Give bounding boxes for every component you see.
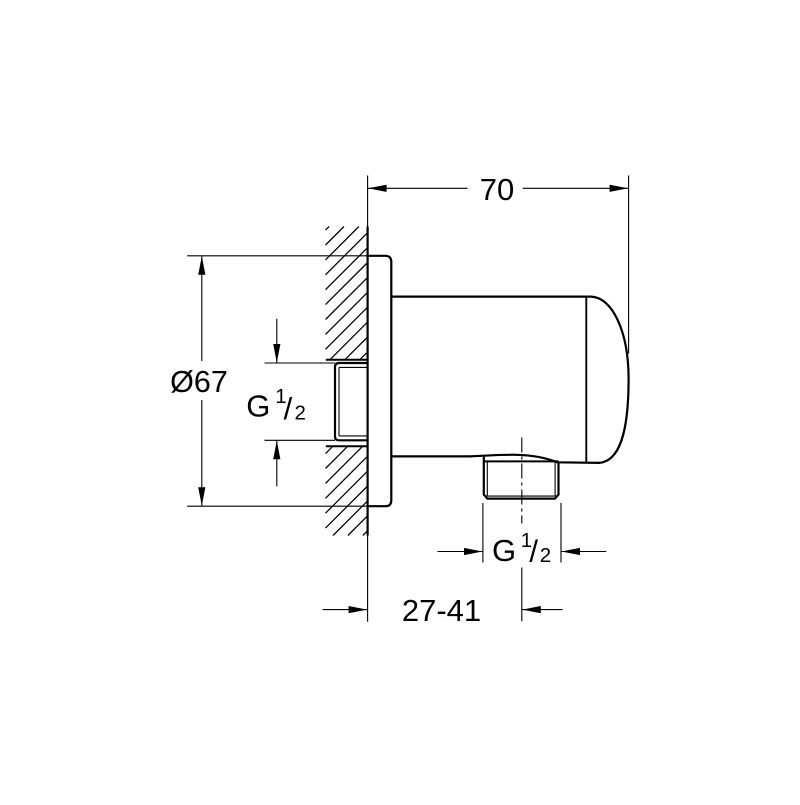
inlet pipe outline (G1/2 tail) <box>335 363 368 440</box>
dim pipe lower arrow (up) <box>273 441 280 487</box>
dim 27-41 extension (wall line lower) <box>367 536 369 622</box>
wall face line (thick) <box>367 227 369 536</box>
wall hatching (section lines) <box>326 227 368 536</box>
outlet nipple outline <box>484 456 559 499</box>
outlet centerline (dash-dot) <box>521 438 523 622</box>
dim 70 extension line right <box>628 176 630 354</box>
dim O67 extension line bottom <box>187 505 367 507</box>
dim O67 line lower segment + down arrow <box>198 400 205 506</box>
dim O67 extension line top <box>187 255 367 257</box>
svg-text:G: G <box>492 533 516 568</box>
dim pipe extension line upper <box>265 362 336 364</box>
dim 27-41 left arrow (right-pointing) <box>323 606 368 613</box>
dim O67 line upper segment + up arrow <box>198 256 205 361</box>
svg-text:2: 2 <box>295 401 306 424</box>
dim 27-41 right arrow (left-pointing) <box>522 606 563 613</box>
svg-text:70: 70 <box>480 172 514 207</box>
inlet pipe thread lines <box>339 367 368 436</box>
outlet nipple top edge <box>484 460 559 462</box>
dim text 70 <box>480 172 514 207</box>
dome end cap curve <box>591 297 629 463</box>
label G 1/2 (outlet) <box>492 529 551 569</box>
dim 70 line left segment + arrow <box>368 185 468 192</box>
dim 70 line right segment + arrow <box>523 185 629 192</box>
dome junction line <box>585 297 587 462</box>
dim text 27-41 <box>402 593 481 628</box>
svg-text:27-41: 27-41 <box>402 593 481 628</box>
dim text O67 <box>170 365 228 399</box>
dim pipe upper arrow (down) <box>273 319 280 363</box>
wall flange (escutcheon) outline <box>368 256 392 506</box>
dim outlet left arrow (right-pointing) <box>438 548 483 555</box>
svg-text:/: / <box>284 391 293 426</box>
outlet nipple thread lines <box>486 462 558 496</box>
svg-text:/: / <box>529 534 538 569</box>
svg-text:2: 2 <box>540 544 551 567</box>
body top edge <box>391 296 591 298</box>
svg-text:G: G <box>246 389 270 424</box>
label G 1/2 (inlet) <box>246 385 306 426</box>
wall hole lower edge <box>326 445 368 447</box>
body bottom silhouette over outlet and dome bottom edge <box>391 455 600 463</box>
wall hole upper edge <box>326 359 368 361</box>
dim outlet extension line right <box>560 503 562 563</box>
svg-text:Ø67: Ø67 <box>170 365 228 399</box>
dim 70 extension line left (wall top) <box>367 176 369 227</box>
dim outlet extension line left <box>482 503 484 563</box>
dim outlet right arrow (left-pointing) <box>561 548 606 555</box>
dim pipe extension line lower <box>265 439 336 441</box>
